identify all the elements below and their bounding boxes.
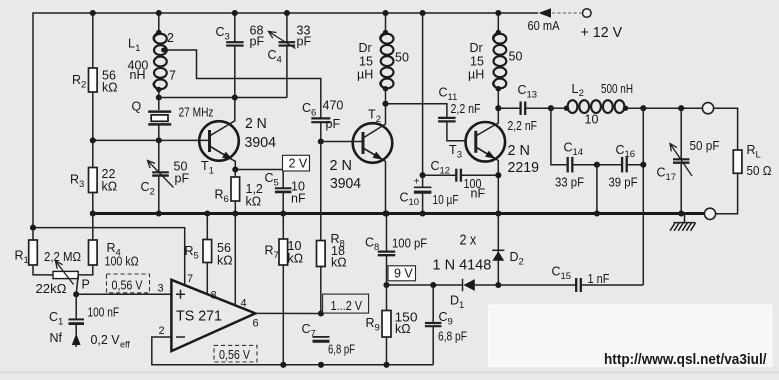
svg-text:2: 2 xyxy=(167,31,174,45)
svg-text:pF: pF xyxy=(175,172,190,186)
svg-text:2: 2 xyxy=(159,325,165,337)
diode D1 1N4148 xyxy=(433,284,462,286)
svg-text:kΩ: kΩ xyxy=(331,256,347,270)
svg-text:6,8 pF: 6,8 pF xyxy=(438,330,467,344)
svg-text:33 pF: 33 pF xyxy=(555,176,584,190)
capacitor C9 6.8pF xyxy=(432,285,434,323)
wire pin 4 to ground rail xyxy=(234,214,236,306)
svg-text:C: C xyxy=(268,48,277,62)
svg-text:kΩ: kΩ xyxy=(102,81,118,95)
node D2-D1-C15 junction xyxy=(495,282,501,288)
svg-text:C: C xyxy=(49,310,58,324)
svg-text:D: D xyxy=(450,294,459,308)
svg-text:0,56 V: 0,56 V xyxy=(112,279,144,293)
node feedback R7 xyxy=(280,362,286,368)
svg-text:7: 7 xyxy=(274,250,279,261)
svg-text:10: 10 xyxy=(585,113,599,127)
svg-text:kΩ: kΩ xyxy=(246,194,262,208)
node 9V line junction xyxy=(383,282,389,288)
svg-text:R: R xyxy=(215,188,224,202)
svg-text:1 nF: 1 nF xyxy=(588,272,610,286)
svg-text:C: C xyxy=(439,86,448,100)
transistor T1 2N3904 xyxy=(199,121,239,161)
wire pin 2 feedback xyxy=(152,337,433,365)
svg-text:17: 17 xyxy=(666,172,677,183)
svg-text:15: 15 xyxy=(359,55,373,69)
capacitor C16 39pF xyxy=(597,164,622,166)
node Nf input arrow xyxy=(72,334,81,346)
resistor R4 100k xyxy=(92,214,94,241)
wire bias feed to op-amp pin 7 xyxy=(33,228,185,286)
svg-text:10 µF: 10 µF xyxy=(433,193,459,207)
svg-text:500 nH: 500 nH xyxy=(601,82,633,96)
svg-text:6: 6 xyxy=(311,107,316,118)
svg-text:7: 7 xyxy=(187,273,193,285)
svg-text:R: R xyxy=(107,241,116,255)
svg-text:Dr: Dr xyxy=(470,41,483,55)
svg-text:5: 5 xyxy=(194,250,199,261)
resistor R2 56k xyxy=(92,13,94,68)
svg-text:R: R xyxy=(72,73,81,87)
svg-text:C: C xyxy=(216,25,225,39)
svg-text:nF: nF xyxy=(471,187,486,201)
inductor Dr1 15uH choke xyxy=(385,13,387,33)
svg-text:27 MHz: 27 MHz xyxy=(179,106,214,120)
svg-text:C: C xyxy=(616,143,625,157)
svg-text:100 nF: 100 nF xyxy=(88,306,120,320)
svg-text:0,2 V: 0,2 V xyxy=(91,333,121,347)
wire C10 feed from +12V rail xyxy=(422,13,424,175)
svg-text:1 N 4148: 1 N 4148 xyxy=(433,257,492,274)
svg-text:pF: pF xyxy=(326,117,341,131)
svg-text:2: 2 xyxy=(579,88,584,99)
capacitor C13 2.2nF xyxy=(498,107,520,109)
svg-text:Nf: Nf xyxy=(50,331,63,345)
wire L1 bottom to crystal node xyxy=(158,90,160,111)
capacitor C15 1nF xyxy=(498,284,576,286)
svg-text:1...2 V: 1...2 V xyxy=(331,299,363,313)
svg-text:http://www.qsl.net/va3iul/: http://www.qsl.net/va3iul/ xyxy=(604,352,767,368)
svg-text:50 Ω: 50 Ω xyxy=(747,164,772,178)
label measurement box 2V xyxy=(283,155,310,171)
svg-text:R: R xyxy=(70,173,79,187)
svg-text:C: C xyxy=(141,180,150,194)
node RF output terminal top xyxy=(702,103,713,114)
svg-text:C: C xyxy=(518,83,527,97)
svg-text:kΩ: kΩ xyxy=(217,254,233,268)
svg-text:0,56 V: 0,56 V xyxy=(219,348,251,362)
svg-text:C: C xyxy=(431,159,440,173)
svg-text:2 x: 2 x xyxy=(460,231,477,248)
inductor L2 500nH xyxy=(551,107,567,109)
svg-text:T: T xyxy=(201,159,209,173)
node C13-L2-C14 junction xyxy=(548,105,554,111)
node crystal-C2 junction xyxy=(156,137,162,143)
svg-text:50: 50 xyxy=(509,50,523,64)
node C14-C16 ground tap xyxy=(594,162,600,168)
svg-text:3904: 3904 xyxy=(245,134,277,151)
svg-text:kΩ: kΩ xyxy=(288,252,304,266)
svg-text:C: C xyxy=(564,141,573,155)
svg-text:R: R xyxy=(265,244,274,258)
node T2 collector junction xyxy=(382,101,388,107)
svg-text:3: 3 xyxy=(457,149,462,160)
wire pot to pin3 node xyxy=(76,275,78,294)
crystal Q 27MHz xyxy=(148,110,171,113)
node output R8-C7 junction xyxy=(318,310,324,316)
wire op-amp output xyxy=(255,312,321,314)
capacitor C4 33pF variable xyxy=(286,13,288,42)
svg-text:kΩ: kΩ xyxy=(102,180,118,194)
capacitor C14 33pF xyxy=(551,108,568,165)
svg-text:kΩ: kΩ xyxy=(395,322,411,336)
svg-text:2: 2 xyxy=(376,114,381,125)
svg-text:2,2 nF: 2,2 nF xyxy=(508,119,538,133)
transistor T3 2N2219 xyxy=(466,122,506,162)
svg-text:16: 16 xyxy=(625,149,636,160)
svg-text:T: T xyxy=(449,143,457,157)
resistor RL 50ohm load xyxy=(733,150,742,173)
node +12V terminal xyxy=(583,9,592,18)
diode D2 1N4148 xyxy=(497,214,499,286)
svg-text:C: C xyxy=(400,191,409,205)
node 9V detector junction xyxy=(430,282,436,288)
wire output line to terminal xyxy=(643,107,702,109)
svg-text:470: 470 xyxy=(323,98,344,112)
bottom edge line xyxy=(0,371,779,373)
node T3 collector junction xyxy=(495,105,501,111)
svg-text:2,2 MΩ: 2,2 MΩ xyxy=(44,250,81,264)
node collector T1 junction xyxy=(232,94,238,100)
svg-text:µH: µH xyxy=(468,68,484,82)
capacitor C11 2.2nF xyxy=(386,104,447,118)
node feedback C7 xyxy=(318,362,324,368)
svg-text:TS 271: TS 271 xyxy=(176,307,222,324)
node pin3 bias junction xyxy=(73,291,79,297)
capacitor C10 10uF electrolytic xyxy=(422,175,424,187)
svg-text:L: L xyxy=(128,37,135,51)
capacitor C12 100nF xyxy=(423,174,457,176)
svg-text:1: 1 xyxy=(135,43,140,54)
wire base bias rail y140 xyxy=(93,139,210,141)
op-amp U1 TS271 xyxy=(171,280,255,351)
svg-text:2 N: 2 N xyxy=(245,115,267,132)
url box xyxy=(489,305,773,366)
svg-text:D: D xyxy=(510,250,519,264)
node R2-R3 junction xyxy=(90,137,96,143)
svg-text:100 kΩ: 100 kΩ xyxy=(105,255,139,269)
svg-text:nH: nH xyxy=(130,68,146,82)
svg-text:C: C xyxy=(365,236,374,250)
label measurement box 0,56V dashed xyxy=(107,274,150,293)
svg-text:1: 1 xyxy=(24,255,29,266)
wire top +12V supply rail xyxy=(33,13,538,228)
potentiometer P 22k xyxy=(33,265,53,275)
node feedback R9 xyxy=(383,362,389,368)
node C16 right junction xyxy=(640,162,646,168)
capacitor C6 470pF xyxy=(311,117,330,119)
svg-text:2,2 nF: 2,2 nF xyxy=(451,102,481,116)
node T2 emitter ground xyxy=(382,210,388,216)
wire collector node horizontal y97.5 xyxy=(159,97,287,99)
svg-text:+ 12 V: + 12 V xyxy=(581,24,623,41)
svg-text:60 mA: 60 mA xyxy=(528,19,561,33)
svg-text:6: 6 xyxy=(224,194,229,205)
svg-text:1: 1 xyxy=(459,300,464,311)
svg-text:µH: µH xyxy=(357,68,373,82)
svg-text:R: R xyxy=(747,143,756,157)
capacitor C8 100pF xyxy=(386,214,388,252)
capacitor C17 50pF variable xyxy=(678,105,684,111)
svg-text:50: 50 xyxy=(395,51,409,65)
wire mid ground rail (thick) xyxy=(93,212,705,215)
svg-text:pF: pF xyxy=(250,35,265,49)
svg-text:C: C xyxy=(439,310,448,324)
svg-text:+: + xyxy=(414,177,420,188)
resistor R8 18k xyxy=(317,241,326,267)
node C10-C12 junction xyxy=(420,172,426,178)
resistor R7 10k xyxy=(282,214,284,240)
svg-text:pF: pF xyxy=(297,35,312,49)
label measurement box 0,56V output dashed xyxy=(214,345,257,362)
resistor R5 56k to pin 8 xyxy=(206,214,208,240)
svg-text:1: 1 xyxy=(209,165,214,176)
svg-text:1: 1 xyxy=(58,316,63,327)
svg-text:L: L xyxy=(572,82,579,96)
svg-text:7: 7 xyxy=(169,69,176,83)
svg-text:T: T xyxy=(368,108,376,122)
svg-text:eff: eff xyxy=(120,340,130,350)
resistor R1 2.2M xyxy=(32,228,34,240)
wire supply arrow 60 mA xyxy=(539,8,552,18)
svg-text:7: 7 xyxy=(311,328,316,339)
node RF output terminal bottom xyxy=(704,208,715,219)
svg-text:9 V: 9 V xyxy=(394,267,413,281)
resistor R6 1.2k xyxy=(234,170,236,178)
node T3 emitter ground xyxy=(495,210,501,216)
svg-text:C: C xyxy=(302,322,311,336)
svg-text:10: 10 xyxy=(409,197,420,208)
inductor L1 400nH xyxy=(158,13,160,33)
label measurement box 1...2V xyxy=(323,294,369,313)
svg-text:2 N: 2 N xyxy=(330,157,353,174)
svg-text:22kΩ: 22kΩ xyxy=(36,282,67,296)
svg-text:C: C xyxy=(265,171,274,185)
svg-text:2: 2 xyxy=(519,256,524,267)
svg-text:13: 13 xyxy=(527,89,538,100)
node output top junction xyxy=(640,105,646,111)
svg-text:4: 4 xyxy=(277,54,282,65)
svg-text:8: 8 xyxy=(211,290,217,302)
wire to op-amp pin 3 xyxy=(76,293,171,295)
capacitor C7 6.8pF xyxy=(313,336,330,338)
svg-text:R: R xyxy=(185,244,194,258)
svg-text:3: 3 xyxy=(79,179,84,190)
svg-text:5: 5 xyxy=(274,177,279,188)
svg-text:C: C xyxy=(657,166,666,180)
svg-text:Q: Q xyxy=(132,100,142,114)
capacitor C3 68pF xyxy=(234,13,236,42)
svg-text:12: 12 xyxy=(440,165,451,176)
svg-text:6,8 pF: 6,8 pF xyxy=(328,343,355,357)
ground symbol xyxy=(674,214,696,223)
svg-text:P: P xyxy=(82,278,90,292)
svg-text:9: 9 xyxy=(448,316,453,327)
svg-text:3: 3 xyxy=(225,31,230,42)
svg-text:R: R xyxy=(15,249,24,263)
svg-text:L: L xyxy=(756,149,761,160)
svg-text:15: 15 xyxy=(470,55,484,69)
wire L1 tap 2 to C6 xyxy=(164,50,321,118)
svg-text:2 N: 2 N xyxy=(508,142,531,159)
svg-text:2: 2 xyxy=(150,186,155,197)
svg-text:50 pF: 50 pF xyxy=(690,139,720,153)
svg-text:9: 9 xyxy=(375,322,380,333)
label measurement box 9V xyxy=(388,266,416,281)
wire output node down to C15 (crosses ground rail) xyxy=(642,108,644,285)
svg-text:4: 4 xyxy=(241,298,247,310)
svg-text:3904: 3904 xyxy=(330,175,361,192)
wire T1 emitter to C5 xyxy=(235,170,283,189)
node T1 emitter junction xyxy=(232,166,238,172)
svg-text:C: C xyxy=(552,265,561,279)
capacitor C2 50pF variable xyxy=(158,140,160,172)
svg-text:Dr: Dr xyxy=(359,41,372,55)
wire T2 base node down through rail to R8 xyxy=(320,142,322,241)
svg-text:14: 14 xyxy=(573,147,584,158)
svg-text:6: 6 xyxy=(253,318,259,330)
svg-text:100 pF: 100 pF xyxy=(392,237,428,251)
transistor T2 2N3904 xyxy=(353,123,393,163)
svg-text:15: 15 xyxy=(561,271,572,282)
svg-text:R: R xyxy=(366,316,375,330)
svg-text:2: 2 xyxy=(81,79,86,90)
resistor R3 22k xyxy=(92,140,94,167)
svg-text:8: 8 xyxy=(374,242,379,253)
svg-text:2 V: 2 V xyxy=(289,157,308,171)
inductor Dr2 15uH choke xyxy=(497,13,499,33)
node T2 base junction xyxy=(318,138,324,144)
capacitor C1 100nF xyxy=(75,294,77,319)
resistor R9 150k xyxy=(386,285,388,311)
svg-text:3: 3 xyxy=(158,283,164,295)
svg-text:C: C xyxy=(302,101,311,115)
node C12 emitter junction xyxy=(495,172,501,178)
svg-text:39 pF: 39 pF xyxy=(609,176,638,190)
capacitor C5 10nF xyxy=(275,187,292,189)
svg-text:nF: nF xyxy=(291,192,306,206)
svg-text:2219: 2219 xyxy=(508,159,540,176)
